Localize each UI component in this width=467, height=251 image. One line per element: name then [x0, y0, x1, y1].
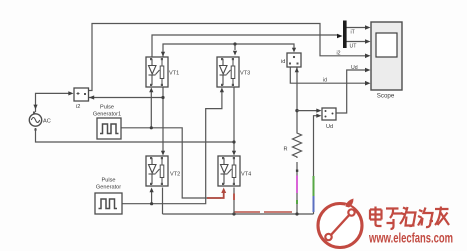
- resistor R: [293, 131, 302, 158]
- wire VT4 to bus: [233, 188, 235, 215]
- node i2 signal corner: [365, 54, 371, 59]
- wire green highlight: [313, 176, 315, 196]
- thyristor VT4: [218, 156, 240, 186]
- wire bottom bus: [163, 213, 314, 215]
- svg-text:UT: UT: [350, 44, 358, 50]
- AC source: [29, 112, 41, 131]
- wire demux input from VT1: [152, 35, 338, 57]
- id current measure block: [287, 53, 301, 67]
- demux: [343, 21, 347, 49]
- watermark cjk text: [370, 207, 449, 230]
- wire AC top to i2: [36, 93, 70, 112]
- wire magenta highlight: [296, 176, 298, 194]
- scope: [371, 22, 402, 90]
- wire red bus dashes: [234, 211, 292, 213]
- wire PG1 gate line: [121, 90, 221, 199]
- wire demux out iT: [347, 27, 367, 29]
- svg-text:VT1: VT1: [169, 71, 179, 77]
- pulse generator1: [97, 118, 121, 139]
- i2 block: [74, 88, 89, 101]
- wire DC rail id to R: [296, 68, 298, 132]
- node DC rail junction: [295, 109, 298, 112]
- svg-text:VT2: VT2: [170, 172, 180, 178]
- wire VT2 to bus: [162, 188, 164, 215]
- wire green highlight low: [296, 200, 298, 204]
- wire id signal to scope: [290, 67, 366, 83]
- wire DC+ rail top (VT1 VT3 to id): [163, 44, 294, 57]
- svg-text:www.elecfans.com: www.elecfans.com: [368, 231, 453, 246]
- svg-text:id: id: [281, 59, 285, 65]
- wire PG gate line: [122, 92, 222, 204]
- wire red highlight VT4 leg: [233, 194, 235, 201]
- svg-text:Ud: Ud: [351, 65, 358, 71]
- wire left leg: [89, 87, 164, 153]
- wire VT3 drop: [234, 44, 236, 50]
- svg-text:Generator: Generator: [96, 185, 121, 191]
- svg-text:id: id: [323, 78, 327, 84]
- wire middle leg: [233, 87, 235, 153]
- wire Ud signal to scope: [336, 70, 366, 113]
- pulse generator: [95, 193, 122, 214]
- svg-text:Scope: Scope: [377, 93, 395, 100]
- wire demux out UT: [347, 41, 367, 43]
- wire Ud plus: [297, 110, 317, 112]
- svg-text:i2: i2: [76, 104, 80, 110]
- wire blue highlight: [313, 196, 315, 212]
- wire R bottom to bus: [296, 162, 298, 214]
- svg-text:VT4: VT4: [241, 172, 251, 178]
- svg-text:i2: i2: [337, 51, 341, 57]
- svg-text:AC: AC: [43, 119, 51, 125]
- wire Ud minus from bus: [314, 116, 318, 214]
- watermark logo: [318, 199, 362, 248]
- thyristor VT2: [146, 156, 168, 186]
- wire red PG1 to VT4 gate: [207, 191, 224, 198]
- svg-text:Generator1: Generator1: [93, 112, 121, 118]
- wire i2 signal to scope: [89, 24, 367, 91]
- thyristor VT1: [146, 57, 168, 87]
- svg-text:R: R: [284, 147, 288, 153]
- thyristor VT3: [217, 57, 239, 87]
- svg-text:Pulse: Pulse: [100, 105, 114, 111]
- svg-text:Pulse: Pulse: [102, 178, 116, 184]
- svg-text:VT3: VT3: [240, 71, 250, 77]
- svg-text:Ud: Ud: [326, 124, 333, 130]
- wire AC bottom to middle leg: [36, 128, 235, 142]
- Ud voltage measure block: [322, 108, 336, 120]
